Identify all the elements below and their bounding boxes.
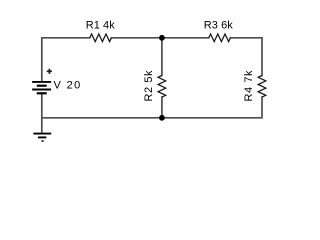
- resistor R3: [209, 34, 231, 42]
- voltage source V1 battery plates: [32, 82, 51, 93]
- wire: R3 right lead to top-right corner down to R4: [230, 38, 262, 76]
- node B junction dot: [159, 115, 165, 121]
- wire: node B to bottom-left corner: [42, 117, 162, 119]
- svg-text:R1 4k: R1 4k: [86, 20, 116, 32]
- wire: node A to R3 left lead: [162, 37, 209, 39]
- wire: R2 bottom lead down to node B: [161, 97, 163, 118]
- svg-text:R3 6k: R3 6k: [204, 20, 234, 32]
- resistor R2: [158, 76, 166, 98]
- wire: battery negative down to ground: [41, 94, 43, 133]
- wire: R1 right lead to node A: [111, 37, 161, 39]
- resistor R1: [90, 34, 112, 42]
- svg-text:R2 5k: R2 5k: [143, 70, 155, 102]
- wire: R4 bottom lead to bottom-right corner and left to node B: [162, 97, 262, 118]
- node A junction dot: [159, 35, 165, 41]
- wire: node A down to R2 top lead: [161, 38, 163, 76]
- svg-text:V 20: V 20: [54, 80, 81, 92]
- svg-text:R4 7k: R4 7k: [243, 70, 255, 102]
- ground: [33, 134, 51, 141]
- wire: battery positive up to top-left corner and right to R1: [42, 38, 90, 81]
- resistor R4: [258, 76, 266, 98]
- polarity + sign: [47, 69, 52, 74]
